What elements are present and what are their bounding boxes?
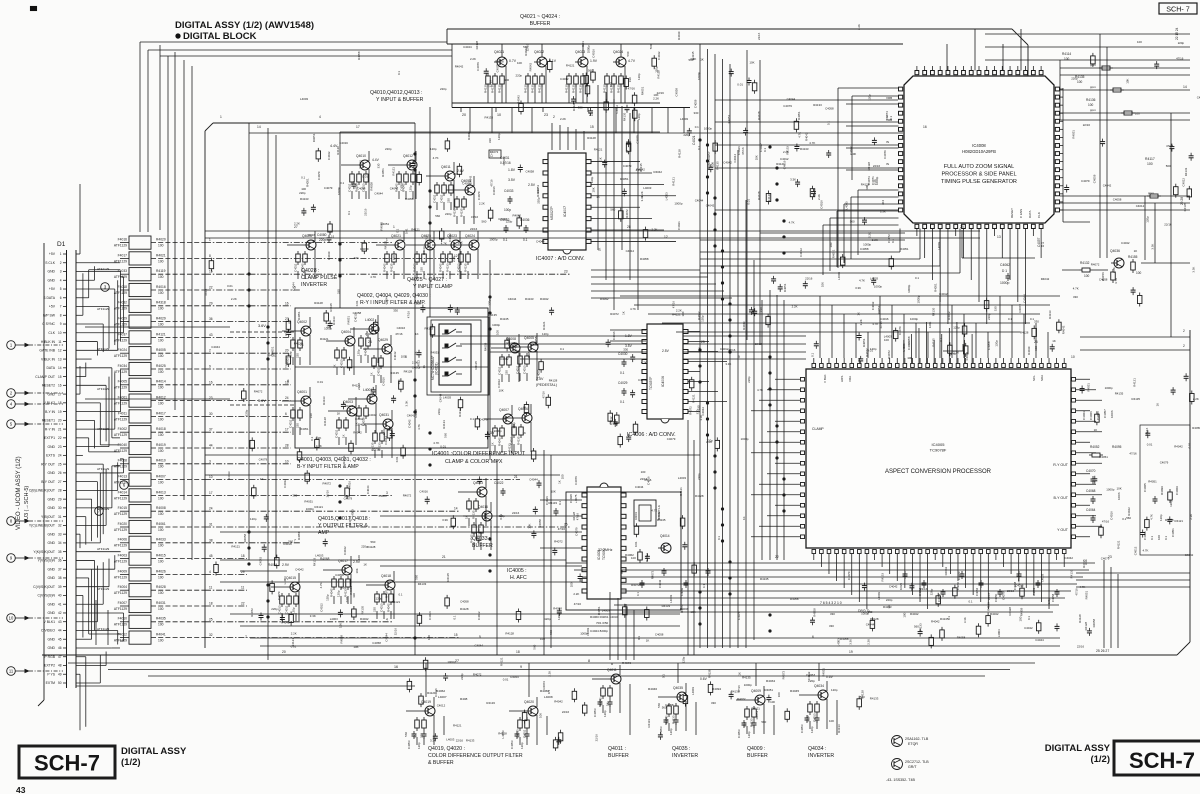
svg-text:F4040: F4040	[118, 443, 128, 447]
svg-text:R4058: R4058	[1192, 426, 1200, 430]
svg-text:C4044: C4044	[510, 675, 519, 679]
svg-text:100/6: 100/6	[1110, 410, 1114, 418]
svg-text:C4068: C4068	[1086, 489, 1096, 493]
svg-text:R4133: R4133	[312, 557, 316, 566]
svg-text:220: 220	[447, 198, 451, 203]
svg-text:C4044: C4044	[439, 393, 443, 402]
svg-text:C4042: C4042	[615, 105, 619, 114]
svg-text:C4044: C4044	[463, 45, 472, 49]
svg-text:C4058: C4058	[526, 170, 535, 174]
svg-text:31: 31	[58, 515, 62, 519]
svg-text:10K: 10K	[355, 568, 359, 573]
svg-text:15: 15	[590, 125, 594, 129]
svg-text:6: 6	[812, 635, 814, 639]
svg-text:47/16: 47/16	[574, 602, 582, 606]
svg-text:29: 29	[241, 570, 245, 574]
svg-text:1: 1	[209, 238, 211, 242]
svg-text:-43- 1SS352- T4B: -43- 1SS352- T4B	[886, 778, 916, 782]
svg-text:120p: 120p	[637, 113, 641, 120]
svg-text:R4095: R4095	[1112, 445, 1122, 449]
svg-text:R4058: R4058	[534, 336, 538, 345]
svg-text:0.1: 0.1	[947, 616, 951, 620]
svg-text:18: 18	[58, 401, 62, 405]
svg-text:1K: 1K	[887, 605, 891, 609]
svg-text:ATF1129: ATF1129	[114, 433, 127, 437]
svg-text:R4135: R4135	[932, 338, 936, 347]
svg-text:21: 21	[514, 475, 518, 479]
svg-text:R4072: R4072	[542, 681, 546, 690]
svg-text:R4051: R4051	[832, 249, 836, 258]
svg-text:R4135: R4135	[329, 303, 333, 312]
svg-text:0.1: 0.1	[560, 347, 564, 351]
svg-text:GND: GND	[47, 497, 55, 501]
svg-text:39: 39	[58, 585, 62, 589]
wire horizontal trunks center	[430, 270, 806, 359]
svg-text:X4001: X4001	[634, 511, 638, 520]
svg-text:ATF1129: ATF1129	[114, 244, 127, 248]
svg-text:330: 330	[349, 578, 353, 583]
svg-text:C4011: C4011	[285, 605, 289, 614]
svg-text:R4072: R4072	[737, 697, 746, 701]
svg-text:C4058: C4058	[638, 378, 647, 382]
svg-text:C4058: C4058	[460, 600, 469, 604]
svg-text:1000p: 1000p	[587, 45, 591, 53]
svg-text:C4042: C4042	[500, 357, 509, 361]
svg-text:F4009: F4009	[118, 569, 128, 573]
svg-text:220p: 220p	[445, 212, 452, 216]
svg-text:C4012: C4012	[799, 248, 803, 257]
svg-text:H082GD10A29FB: H082GD10A29FB	[962, 149, 996, 154]
svg-text:C(V)/S(G)N: C(V)/S(G)N	[37, 594, 55, 598]
svg-text:C4030: C4030	[618, 352, 628, 356]
svg-text:R4128: R4128	[1084, 621, 1088, 630]
svg-text:C4063: C4063	[1082, 411, 1086, 420]
svg-text:C4012: C4012	[283, 479, 287, 488]
svg-text:Q4011: Q4011	[607, 668, 617, 672]
svg-text:4.7K: 4.7K	[797, 132, 801, 138]
svg-text:2.2K: 2.2K	[548, 671, 552, 677]
svg-text:4.7K: 4.7K	[1143, 548, 1149, 552]
svg-text:Q4001, Q4003, Q4031, Q4032 :: Q4001, Q4003, Q4031, Q4032 :	[297, 457, 371, 463]
svg-text:0.01: 0.01	[404, 228, 408, 234]
svg-text:0.1: 0.1	[697, 145, 701, 150]
svg-text:R4072: R4072	[610, 312, 619, 316]
svg-text:R4042: R4042	[600, 297, 609, 301]
svg-text:L4003: L4003	[902, 343, 906, 351]
svg-text:1K: 1K	[363, 562, 367, 566]
svg-text:20: 20	[462, 113, 466, 117]
svg-text:R4121: R4121	[672, 177, 676, 186]
svg-text:R4058: R4058	[243, 533, 247, 542]
svg-text:ATF1129: ATF1129	[97, 467, 110, 471]
svg-text:R4072: R4072	[689, 406, 693, 415]
svg-text:40: 40	[58, 594, 62, 598]
svg-text:C4062: C4062	[1000, 263, 1010, 267]
svg-text:15: 15	[454, 633, 458, 637]
svg-text:120p: 120p	[747, 731, 751, 738]
svg-text:C4042: C4042	[1185, 553, 1194, 557]
svg-text:R4042: R4042	[413, 263, 417, 272]
svg-text:C4079: C4079	[360, 247, 369, 251]
svg-text:C4042: C4042	[1121, 241, 1130, 245]
svg-text:R4135: R4135	[488, 313, 497, 317]
svg-text:EXTP1: EXTP1	[44, 436, 55, 440]
svg-text:330: 330	[393, 309, 398, 313]
svg-text:R4042: R4042	[359, 160, 363, 169]
svg-text:30: 30	[58, 506, 62, 510]
svg-text:C4011: C4011	[348, 183, 352, 192]
svg-text:F4014: F4014	[118, 490, 128, 494]
svg-text:Q4016: Q4016	[478, 505, 488, 509]
svg-text:120p: 120p	[669, 728, 673, 735]
svg-text:R4060 R4061 C4034: R4060 R4061 C4034	[590, 615, 619, 619]
svg-text:330: 330	[694, 111, 699, 115]
svg-text:R4042: R4042	[467, 131, 471, 140]
svg-text:Y OUTPUT FILTER &: Y OUTPUT FILTER &	[318, 523, 368, 529]
svg-text:Q4023: Q4023	[575, 50, 585, 54]
svg-text:404: 404	[881, 200, 885, 205]
svg-text:10: 10	[9, 616, 14, 621]
svg-text:C4079: C4079	[259, 457, 268, 461]
svg-text:R4051: R4051	[1099, 455, 1108, 459]
svg-text:100: 100	[158, 307, 164, 311]
svg-text:23: 23	[544, 113, 548, 117]
svg-text:8: 8	[588, 659, 590, 663]
svg-text:100: 100	[540, 637, 545, 641]
label video ucom assy	[16, 456, 30, 530]
svg-text:R4133: R4133	[525, 297, 534, 301]
svg-text:DIGITAL ASSY: DIGITAL ASSY	[121, 746, 187, 757]
svg-text:R4051: R4051	[300, 427, 309, 431]
svg-text:1K: 1K	[1052, 339, 1056, 343]
svg-text:C4058: C4058	[1051, 593, 1055, 602]
svg-text:C4042: C4042	[1065, 556, 1074, 560]
svg-text:R4121: R4121	[342, 455, 346, 464]
svg-text:TC9057F: TC9057F	[649, 377, 653, 390]
svg-text:47/16: 47/16	[741, 147, 745, 155]
svg-text:100: 100	[158, 512, 164, 516]
svg-text:GND: GND	[47, 278, 55, 282]
svg-text:3: 3	[60, 270, 62, 274]
svg-text:0.01: 0.01	[227, 284, 233, 288]
svg-text:Q4022: Q4022	[534, 50, 544, 54]
svg-text:R4072: R4072	[254, 390, 263, 394]
svg-text:28: 28	[58, 489, 62, 493]
svg-text:0.1: 0.1	[340, 181, 344, 185]
svg-text:Y INPUT CLAMP: Y INPUT CLAMP	[413, 284, 453, 290]
svg-text:330: 330	[711, 701, 716, 705]
svg-text:C4058: C4058	[335, 573, 344, 577]
svg-text:R4042: R4042	[330, 588, 334, 597]
svg-text:2: 2	[209, 349, 211, 353]
svg-text:47/16: 47/16	[204, 288, 208, 296]
svg-text:R4135: R4135	[931, 307, 935, 316]
svg-text:2.2K: 2.2K	[857, 24, 861, 30]
svg-text:14: 14	[58, 366, 62, 370]
svg-text:R4042: R4042	[360, 617, 369, 621]
svg-text:F4008: F4008	[118, 459, 128, 463]
svg-text:ATF1129: ATF1129	[114, 639, 127, 643]
svg-text:C4012: C4012	[355, 417, 364, 421]
svg-text:100/6: 100/6	[1117, 492, 1121, 500]
wires IC4005 top pins	[814, 322, 1064, 363]
transistors output buffer row	[394, 659, 834, 745]
svg-text:C4016: C4016	[820, 200, 824, 209]
svg-text:R4133: R4133	[662, 604, 671, 608]
svg-text:R4128: R4128	[323, 417, 327, 426]
svg-text:F4002: F4002	[118, 427, 128, 431]
svg-text:47/16: 47/16	[490, 179, 494, 187]
svg-text:EXTM: EXTM	[46, 681, 56, 685]
svg-text:1K: 1K	[342, 434, 346, 438]
svg-text:ATF1129: ATF1129	[114, 259, 127, 263]
svg-text:ATF1129: ATF1129	[97, 547, 110, 551]
svg-text:2.2K: 2.2K	[867, 232, 871, 238]
svg-text:22/16: 22/16	[1077, 645, 1085, 649]
svg-text:C4012: C4012	[871, 301, 875, 310]
svg-text:R4042: R4042	[910, 612, 919, 616]
svg-text:R4051: R4051	[620, 177, 629, 181]
svg-text:1000p: 1000p	[1106, 488, 1114, 492]
svg-text:1.8V: 1.8V	[508, 168, 516, 172]
svg-text:3.3K: 3.3K	[725, 362, 731, 366]
svg-text:R4099: R4099	[1160, 486, 1164, 495]
svg-text:32: 32	[209, 633, 213, 637]
svg-text:C4058: C4058	[353, 311, 362, 315]
svg-text:R4135: R4135	[742, 675, 751, 679]
svg-text:1K: 1K	[1094, 428, 1098, 432]
svg-text:R4042: R4042	[931, 620, 940, 624]
svg-text:0.6V: 0.6V	[826, 675, 834, 679]
svg-text:47/16: 47/16	[576, 513, 580, 521]
svg-text:R4072: R4072	[403, 494, 412, 498]
svg-text:R4130: R4130	[531, 84, 535, 93]
svg-text:0.1: 0.1	[717, 536, 721, 540]
svg-text:2.2K: 2.2K	[560, 117, 566, 121]
svg-text:11: 11	[241, 586, 245, 590]
svg-text:C4012: C4012	[807, 671, 811, 680]
svg-text:100: 100	[641, 470, 646, 474]
svg-text:F4024: F4024	[118, 348, 128, 352]
svg-text:C4013: C4013	[340, 359, 344, 368]
svg-text:R4121: R4121	[1116, 540, 1120, 549]
svg-text:C4079: C4079	[317, 171, 321, 180]
bottom-left digital assy label	[121, 746, 187, 768]
svg-text:24: 24	[209, 507, 213, 511]
svg-text:F4015: F4015	[118, 506, 128, 510]
svg-text:1.9V: 1.9V	[590, 59, 598, 63]
svg-text:C4058: C4058	[372, 641, 381, 645]
svg-text:R4133: R4133	[300, 197, 309, 201]
svg-text:R4019: R4019	[156, 443, 166, 447]
svg-text:120p: 120p	[953, 326, 960, 330]
svg-text:120p: 120p	[430, 147, 437, 151]
svg-text:S CLK: S CLK	[45, 261, 56, 265]
svg-text:R4051: R4051	[1072, 130, 1076, 139]
svg-text:22/16: 22/16	[1145, 427, 1149, 435]
svg-text:C VIDEO: C VIDEO	[41, 629, 55, 633]
svg-text:0.01: 0.01	[499, 514, 503, 520]
svg-text:Q4010: Q4010	[356, 154, 366, 158]
svg-text:24: 24	[368, 340, 372, 344]
svg-text:R4051: R4051	[900, 247, 909, 251]
label Q4025-Q4027 Y input clamp	[407, 277, 453, 290]
svg-text:C4058: C4058	[357, 187, 366, 191]
svg-text:C4011: C4011	[433, 194, 437, 203]
svg-text:0.1: 0.1	[399, 593, 403, 597]
svg-text:R4128: R4128	[757, 191, 761, 200]
svg-text:1000p: 1000p	[910, 317, 918, 321]
svg-text:0.01: 0.01	[345, 596, 349, 602]
svg-text:0.01: 0.01	[317, 380, 323, 384]
svg-text:FULL AUTO ZOOM SIGNAL: FULL AUTO ZOOM SIGNAL	[944, 164, 1015, 170]
svg-text:C4044: C4044	[733, 154, 737, 163]
svg-text:1000p: 1000p	[907, 284, 911, 292]
IC4007 A/D converter	[489, 150, 591, 254]
svg-text:330: 330	[1034, 346, 1038, 351]
svg-text:C4012: C4012	[780, 157, 789, 161]
svg-text:R4133: R4133	[507, 443, 511, 452]
svg-text:330: 330	[354, 256, 359, 260]
svg-text:C4042: C4042	[448, 233, 452, 242]
svg-text:R4136: R4136	[1086, 98, 1096, 102]
svg-text:220p: 220p	[1178, 41, 1185, 45]
svg-text:35: 35	[58, 550, 62, 554]
svg-text:R4058: R4058	[957, 636, 966, 640]
svg-text:C4043: C4043	[658, 579, 662, 588]
svg-text:120p: 120p	[409, 185, 413, 192]
svg-text:220p: 220p	[1071, 76, 1078, 80]
svg-text:0.01: 0.01	[440, 444, 446, 448]
svg-text:10: 10	[1071, 355, 1075, 359]
svg-text:3.3K: 3.3K	[855, 286, 861, 290]
svg-text:100: 100	[681, 311, 685, 316]
svg-text:1: 1	[220, 115, 222, 119]
svg-text:C4016: C4016	[339, 141, 348, 145]
svg-text:50: 50	[58, 681, 62, 685]
svg-text:2.5V: 2.5V	[528, 183, 536, 187]
svg-text:R4128: R4128	[867, 162, 871, 171]
svg-text:R4051: R4051	[1085, 590, 1089, 599]
svg-text:21: 21	[58, 427, 62, 431]
svg-text:1K: 1K	[1156, 403, 1160, 407]
svg-text:1000p: 1000p	[337, 187, 341, 195]
svg-text:4: 4	[60, 278, 62, 282]
svg-text:15: 15	[58, 375, 62, 379]
svg-text:0.1: 0.1	[637, 636, 641, 640]
svg-text:C4011: C4011	[335, 429, 339, 438]
svg-text:C4069: C4069	[1175, 486, 1179, 495]
svg-text:20: 20	[282, 650, 286, 654]
svg-text:47/16: 47/16	[1176, 56, 1184, 60]
svg-text:18: 18	[209, 602, 213, 606]
svg-text:560: 560	[657, 703, 661, 708]
svg-text:2.2K: 2.2K	[652, 227, 658, 231]
svg-text:C4016: C4016	[382, 377, 386, 386]
svg-text:C4044: C4044	[695, 198, 704, 202]
svg-text:R4018: R4018	[156, 427, 166, 431]
svg-text:C4042: C4042	[1024, 626, 1033, 630]
svg-text:R4051: R4051	[304, 500, 313, 504]
svg-text:0.01: 0.01	[634, 541, 638, 547]
svg-text:22: 22	[58, 436, 62, 440]
svg-text:18: 18	[241, 554, 245, 558]
wire trunk extras	[76, 100, 898, 686]
svg-text:17: 17	[209, 491, 213, 495]
svg-text:560: 560	[662, 706, 667, 710]
svg-text:1K: 1K	[370, 372, 374, 376]
svg-text:Q4014: Q4014	[660, 534, 670, 538]
svg-text:120p: 120p	[487, 299, 491, 306]
svg-text:C4028: C4028	[569, 494, 573, 503]
svg-text:10K: 10K	[755, 155, 759, 160]
svg-text:R4042: R4042	[1041, 277, 1050, 281]
svg-text:Y OUT: Y OUT	[1057, 528, 1069, 532]
svg-text:2.5V: 2.5V	[662, 349, 670, 353]
svg-text:L4003: L4003	[937, 242, 941, 250]
label Q4010 Q4012 Q4013	[370, 90, 424, 103]
svg-text:120p: 120p	[512, 422, 516, 429]
svg-text:& BUFFER: & BUFFER	[428, 760, 454, 766]
svg-text:ATF1129: ATF1129	[97, 347, 110, 351]
svg-text:L4003: L4003	[845, 201, 849, 209]
svg-text:220p: 220p	[506, 220, 513, 224]
svg-text:Q4011 :: Q4011 :	[608, 746, 626, 752]
svg-text:7: 7	[245, 635, 247, 639]
svg-text:220: 220	[505, 370, 509, 375]
svg-text:R4121: R4121	[499, 657, 503, 666]
svg-text:100: 100	[158, 244, 164, 248]
svg-text:R4128: R4128	[861, 183, 870, 187]
svg-text:560: 560	[435, 214, 440, 218]
svg-text:120p: 120p	[417, 742, 421, 749]
svg-text:100: 100	[158, 417, 164, 421]
svg-text:B-Y INPUT FILTER & AMP: B-Y INPUT FILTER & AMP	[297, 464, 359, 470]
svg-text:C4079: C4079	[623, 164, 632, 168]
svg-text:C4021: C4021	[692, 135, 696, 145]
svg-text:Q4015,Q4017,Q4018 :: Q4015,Q4017,Q4018 :	[318, 516, 371, 522]
svg-text:R4133: R4133	[486, 701, 495, 705]
svg-text:GND: GND	[47, 270, 55, 274]
svg-text:U3 (→SCH-5): U3 (→SCH-5)	[24, 486, 30, 520]
node 10	[7, 614, 63, 623]
svg-text:1K: 1K	[260, 477, 264, 481]
svg-text:C4044: C4044	[384, 633, 388, 642]
svg-text:36: 36	[58, 559, 62, 563]
svg-text:22/16: 22/16	[488, 80, 492, 88]
svg-text:100: 100	[158, 544, 164, 548]
svg-text:ETQR: ETQR	[908, 742, 918, 746]
svg-text:2.2K: 2.2K	[452, 256, 456, 262]
svg-text:1K: 1K	[558, 480, 562, 484]
component value texture labels	[204, 40, 1200, 742]
svg-text:6: 6	[285, 412, 287, 416]
svg-text:10K: 10K	[538, 713, 542, 718]
svg-text:F4012: F4012	[118, 633, 128, 637]
svg-text:R4058: R4058	[553, 606, 562, 610]
svg-text:1K: 1K	[598, 248, 602, 252]
svg-text:C4079: C4079	[479, 418, 488, 422]
svg-text:D 1: D 1	[1041, 242, 1045, 247]
svg-text:41: 41	[58, 602, 62, 606]
label R-Y input filter amp	[357, 293, 431, 306]
svg-text:C4079: C4079	[957, 571, 961, 580]
svg-text:R4135: R4135	[390, 371, 399, 375]
svg-text:2.2K: 2.2K	[873, 179, 877, 185]
svg-text:R4058: R4058	[790, 597, 799, 601]
svg-text:C4070: C4070	[1086, 469, 1096, 473]
component symbol texture	[209, 53, 1194, 751]
